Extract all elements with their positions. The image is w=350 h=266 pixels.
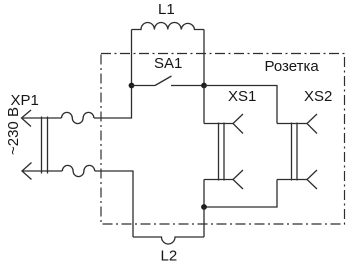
wire top cord to L1 left (corner up) bbox=[94, 30, 132, 119]
svg-text:L1: L1 bbox=[158, 1, 175, 18]
node A (junction) bbox=[129, 83, 135, 89]
wire L2 up to XP1 bottom cord bbox=[95, 171, 133, 237]
svg-text:XS2: XS2 bbox=[304, 88, 332, 105]
wire XS1 bottom pin down to node C bbox=[203, 180, 205, 208]
switch SA1 bbox=[132, 76, 205, 86]
svg-text:SA1: SA1 bbox=[154, 55, 182, 72]
wire L1 right down to node B bbox=[203, 30, 205, 86]
socket XS2 (two fork contacts + double line) bbox=[277, 114, 317, 189]
connector XP1 (plug symbol: two arrow pins + double line) bbox=[22, 110, 48, 180]
wire node B right and down to XS2 top pin bbox=[204, 86, 277, 124]
wire node B down to XS1 top pin bbox=[203, 86, 205, 124]
svg-text:XS1: XS1 bbox=[228, 88, 256, 105]
enclosure dashed box (socket unit boundary) bbox=[101, 54, 345, 225]
node B (junction) bbox=[201, 83, 207, 89]
inductor L2 (single loop) bbox=[133, 237, 204, 244]
flexible wire symbol (bottom cord) bbox=[62, 165, 94, 176]
socket XS1 (two fork contacts + double line) bbox=[204, 114, 243, 189]
node C (junction) bbox=[201, 204, 207, 210]
svg-text:L2: L2 bbox=[161, 248, 178, 265]
wire XS2 bottom pin down and left to node C bbox=[204, 180, 277, 208]
wire node C down to L2 bbox=[203, 207, 205, 237]
wire XP1 top pin bbox=[22, 117, 62, 119]
inductor L1 bbox=[132, 22, 205, 29]
wire XP1 bottom pin bbox=[22, 170, 62, 172]
svg-text:XP1: XP1 bbox=[11, 92, 39, 109]
flexible wire symbol (top cord) bbox=[62, 112, 94, 123]
svg-text:Розетка: Розетка bbox=[265, 58, 320, 75]
svg-text:~230 В: ~230 В bbox=[5, 107, 22, 155]
